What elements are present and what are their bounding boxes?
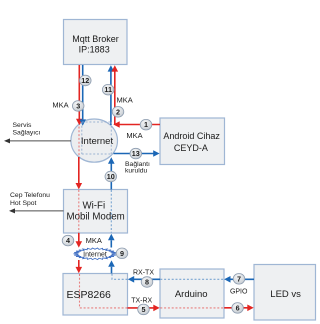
wire red internet to modem bbox=[78, 157, 80, 184]
wire blue cloud to modem bbox=[110, 240, 112, 247]
step 10 bbox=[105, 171, 117, 182]
svg-text:Internet: Internet bbox=[83, 251, 107, 258]
svg-text:12: 12 bbox=[81, 76, 89, 85]
wire cep telefonu to modem bbox=[14, 210, 64, 212]
svg-text:Android Cihaz: Android Cihaz bbox=[163, 131, 220, 141]
wire blue dashed through esp bbox=[112, 274, 127, 280]
box ESP8266 bbox=[63, 274, 128, 316]
svg-text:CEYD-A: CEYD-A bbox=[174, 143, 208, 153]
svg-text:GPIO: GPIO bbox=[230, 288, 248, 295]
svg-text:MKA: MKA bbox=[126, 131, 142, 140]
wire blue led to arduino (7) bbox=[230, 278, 254, 280]
svg-text:RX-TX: RX-TX bbox=[133, 270, 154, 277]
box Arduino bbox=[160, 269, 224, 318]
svg-text:Cep Telefonu: Cep Telefonu bbox=[10, 192, 50, 199]
step 3 bbox=[72, 101, 84, 112]
svg-text:9: 9 bbox=[120, 249, 124, 258]
svg-text:4: 4 bbox=[66, 236, 70, 245]
svg-text:Mobil Modem: Mobil Modem bbox=[67, 212, 125, 223]
svg-text:11: 11 bbox=[104, 85, 112, 94]
svg-text:Wi-Fi: Wi-Fi bbox=[83, 200, 106, 211]
svg-text:3: 3 bbox=[76, 101, 80, 110]
wire red arduino to led (6) bbox=[224, 307, 247, 309]
box LED vs bbox=[254, 265, 316, 321]
svg-text:MKA: MKA bbox=[52, 101, 68, 110]
svg-text:5: 5 bbox=[142, 305, 146, 314]
svg-text:TX-RX: TX-RX bbox=[131, 298, 152, 305]
step 6 bbox=[232, 303, 244, 314]
svg-text:MKA: MKA bbox=[86, 236, 102, 245]
box Android Cihaz CEYD-A bbox=[160, 118, 225, 165]
wire blue arduino to esp (8) bbox=[134, 278, 160, 280]
wire blue modem to internet (10) bbox=[110, 164, 112, 190]
step 7 bbox=[233, 274, 245, 285]
svg-text:IP:1883: IP:1883 bbox=[79, 44, 110, 54]
wire red broker to internet (3) bbox=[78, 65, 80, 119]
step 1 bbox=[140, 119, 152, 130]
svg-text:MKA: MKA bbox=[116, 96, 132, 105]
box Wi-Fi Mobil Modem bbox=[64, 190, 128, 234]
svg-text:Sağlayıcı: Sağlayıcı bbox=[13, 130, 41, 137]
wire blue broker to internet (12) bbox=[82, 65, 84, 119]
svg-text:Internet: Internet bbox=[81, 136, 114, 147]
wire red dashed through modem bbox=[78, 190, 80, 233]
wire red internet to broker (2) bbox=[114, 72, 116, 125]
step 9 bbox=[116, 248, 128, 259]
svg-text:LED vs: LED vs bbox=[270, 289, 301, 300]
wire red android to internet (1) bbox=[120, 124, 161, 126]
wire blue internet to android (13) bbox=[114, 153, 154, 155]
wire red esp to arduino (5) bbox=[128, 307, 154, 309]
wire blue esp to cloud (9) bbox=[111, 267, 113, 274]
wire red dashed through internet bbox=[78, 127, 80, 160]
svg-text:13: 13 bbox=[132, 149, 140, 158]
svg-text:Servis: Servis bbox=[13, 122, 32, 129]
cloud internet bbox=[74, 248, 117, 260]
svg-text:kuruldu: kuruldu bbox=[125, 167, 148, 174]
svg-text:7: 7 bbox=[237, 274, 241, 283]
svg-text:Hot Spot: Hot Spot bbox=[10, 200, 37, 207]
svg-text:ESP8266: ESP8266 bbox=[67, 289, 112, 301]
step 4 bbox=[62, 235, 74, 246]
wire red cloud to esp bbox=[78, 260, 80, 267]
wire blue internet to broker (11) bbox=[110, 72, 112, 126]
box Mqtt Broker bbox=[64, 20, 128, 65]
step 8 bbox=[141, 277, 153, 288]
svg-text:8: 8 bbox=[145, 278, 149, 287]
step 5 bbox=[138, 304, 150, 315]
svg-text:2: 2 bbox=[116, 107, 120, 116]
step 11 bbox=[102, 84, 114, 95]
node Internet circle bbox=[71, 119, 118, 162]
wire servis saglayici to internet bbox=[9, 140, 71, 142]
svg-text:6: 6 bbox=[236, 303, 240, 312]
wire blue dashed through modem bbox=[110, 190, 112, 233]
step 13 bbox=[130, 148, 142, 159]
svg-text:Arduino: Arduino bbox=[175, 289, 208, 300]
svg-text:1: 1 bbox=[144, 120, 148, 129]
wire red dashed through esp bbox=[80, 274, 128, 308]
svg-text:Mqtt Broker: Mqtt Broker bbox=[72, 34, 119, 44]
wire red modem to cloud (4) bbox=[78, 233, 80, 242]
wire red dashed through arduino bbox=[160, 307, 224, 309]
dashed route rect inside internet bbox=[81, 122, 83, 154]
wire blue dashed through arduino bbox=[160, 278, 224, 280]
step 12 bbox=[80, 75, 92, 86]
step 2 bbox=[112, 107, 124, 118]
svg-text:10: 10 bbox=[107, 172, 115, 181]
